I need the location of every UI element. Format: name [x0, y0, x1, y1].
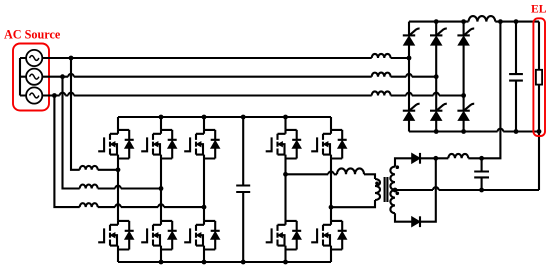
transformer T1 core: [385, 177, 388, 202]
MOSFET Q6: [184, 221, 220, 250]
wire leg cathode T1: [408, 22, 410, 36]
wire leg cathode T2: [435, 22, 437, 36]
wire star-point of AC source: [20, 58, 26, 96]
AC source Vc: [26, 87, 42, 103]
inductor L3 (feed C): [80, 203, 98, 207]
inductor L1 (feed A): [80, 166, 98, 170]
svg-text:EL: EL: [531, 3, 547, 16]
wire H-bridge upper output: [286, 172, 338, 175]
wire leg source Q6: [203, 250, 205, 263]
transformer T1 primary winding: [375, 179, 380, 200]
red enclosure AC Source box: [13, 44, 49, 111]
resistor EL (electrolyzer): [536, 70, 542, 85]
wire phase B to bridge leg2: [391, 74, 437, 77]
wire leg source Q9: [284, 250, 286, 263]
MOSFET Q8: [311, 130, 347, 159]
wire phase A line: [42, 57, 371, 59]
wire leg drain Q3: [203, 117, 205, 130]
wire D1 cathode to inductor: [420, 157, 448, 159]
wire feed B to leg2 midpoint: [98, 186, 161, 189]
wire feed C to leg3 midpoint: [98, 204, 204, 207]
wire DC bus top rail (converter): [118, 116, 331, 118]
wire phase B line: [42, 74, 371, 77]
transformer T1 secondary winding: [390, 167, 395, 214]
wire tap phase C down: [54, 96, 79, 208]
wire leg drain Q8: [330, 117, 332, 130]
thyristor T4: [403, 104, 420, 121]
red enclosure EL box: [533, 18, 545, 136]
wire leg source Q4: [117, 250, 119, 263]
wire leg mid x=463.6: [463, 45, 465, 111]
wire leg cathode T3: [463, 22, 465, 36]
wire to transformer primary top: [364, 174, 375, 179]
wire tap phase B down: [63, 77, 80, 189]
inductor Lb (phase B): [372, 73, 391, 77]
AC source Vb: [26, 69, 42, 85]
wire leg drain Q2: [160, 117, 162, 130]
inductor Lo (output filter): [448, 154, 468, 158]
wire leg drain Q1: [117, 117, 119, 130]
MOSFET Q9: [266, 221, 302, 250]
polarity dot primary: [375, 182, 379, 186]
wire phase A to bridge leg1: [391, 57, 409, 59]
wire transformer primary bottom return: [331, 200, 375, 207]
wire leg source Q5: [160, 250, 162, 263]
diode D2 (bottom): [412, 216, 420, 227]
capacitor Co (output filter): [474, 158, 489, 190]
thyristor T2: [430, 28, 447, 45]
wire leg anode T6: [463, 120, 465, 131]
wire tap phase A down: [71, 58, 80, 170]
wire leg midpoint x=118: [117, 159, 119, 221]
wire DC bus bottom rail (converter): [118, 261, 331, 263]
wire leg drain Q7: [284, 117, 286, 130]
AC source Va: [26, 50, 42, 66]
inductor La (phase A): [372, 54, 391, 58]
svg-text:AC Source: AC Source: [4, 28, 61, 42]
inductor Ls (series): [337, 168, 364, 174]
polarity dot secondary lower half: [396, 192, 400, 196]
wire leg midpoint x=204: [203, 159, 205, 221]
thyristor T3: [457, 28, 474, 45]
wire rectifier top rail: [409, 21, 469, 23]
thyristor T1: [403, 28, 420, 45]
thyristor T5: [430, 104, 447, 121]
polarity dot secondary top: [396, 165, 400, 169]
MOSFET Q7: [266, 130, 302, 159]
wire EL bottom lead: [538, 85, 540, 190]
MOSFET Q3: [184, 130, 220, 159]
wire leg midpoint x=285.5: [284, 159, 286, 221]
inductor L2 (feed B): [80, 185, 98, 189]
wire leg source Q10: [330, 250, 332, 263]
thyristor T6: [457, 104, 474, 121]
inductor Lc (phase C): [372, 91, 391, 95]
MOSFET Q1: [98, 130, 134, 159]
wire leg anode T5: [435, 120, 437, 131]
wire leg midpoint x=331: [330, 159, 332, 221]
capacitor Cf (rectifier filter): [509, 22, 523, 132]
wire rectifier bottom rail: [409, 129, 539, 132]
wire output to top rail: [468, 22, 500, 159]
wire EL top lead: [538, 22, 540, 70]
wire leg anode T4: [408, 120, 410, 131]
diode D1 (top): [412, 153, 420, 164]
MOSFET Q2: [141, 130, 177, 159]
wire rectifier top rail right: [495, 21, 539, 23]
wire secondary top lead: [395, 158, 412, 166]
wire D2 cathode up join: [420, 158, 436, 221]
wire leg midpoint x=161: [160, 159, 162, 221]
wire phase C to bridge leg3: [391, 93, 464, 96]
wire center tap return: [395, 187, 539, 190]
wire phase C line: [42, 93, 371, 96]
capacitor Cdc (DC link): [236, 117, 250, 262]
MOSFET Q5: [141, 221, 177, 250]
inductor Ldc (DC smoothing): [469, 16, 496, 22]
wire leg mid x=436.2: [435, 45, 437, 111]
wire secondary bottom lead: [395, 213, 412, 222]
MOSFET Q10: [311, 221, 347, 250]
wire feed A to leg1 midpoint: [98, 169, 118, 171]
wire leg mid x=409: [408, 45, 410, 111]
MOSFET Q4: [98, 221, 134, 250]
